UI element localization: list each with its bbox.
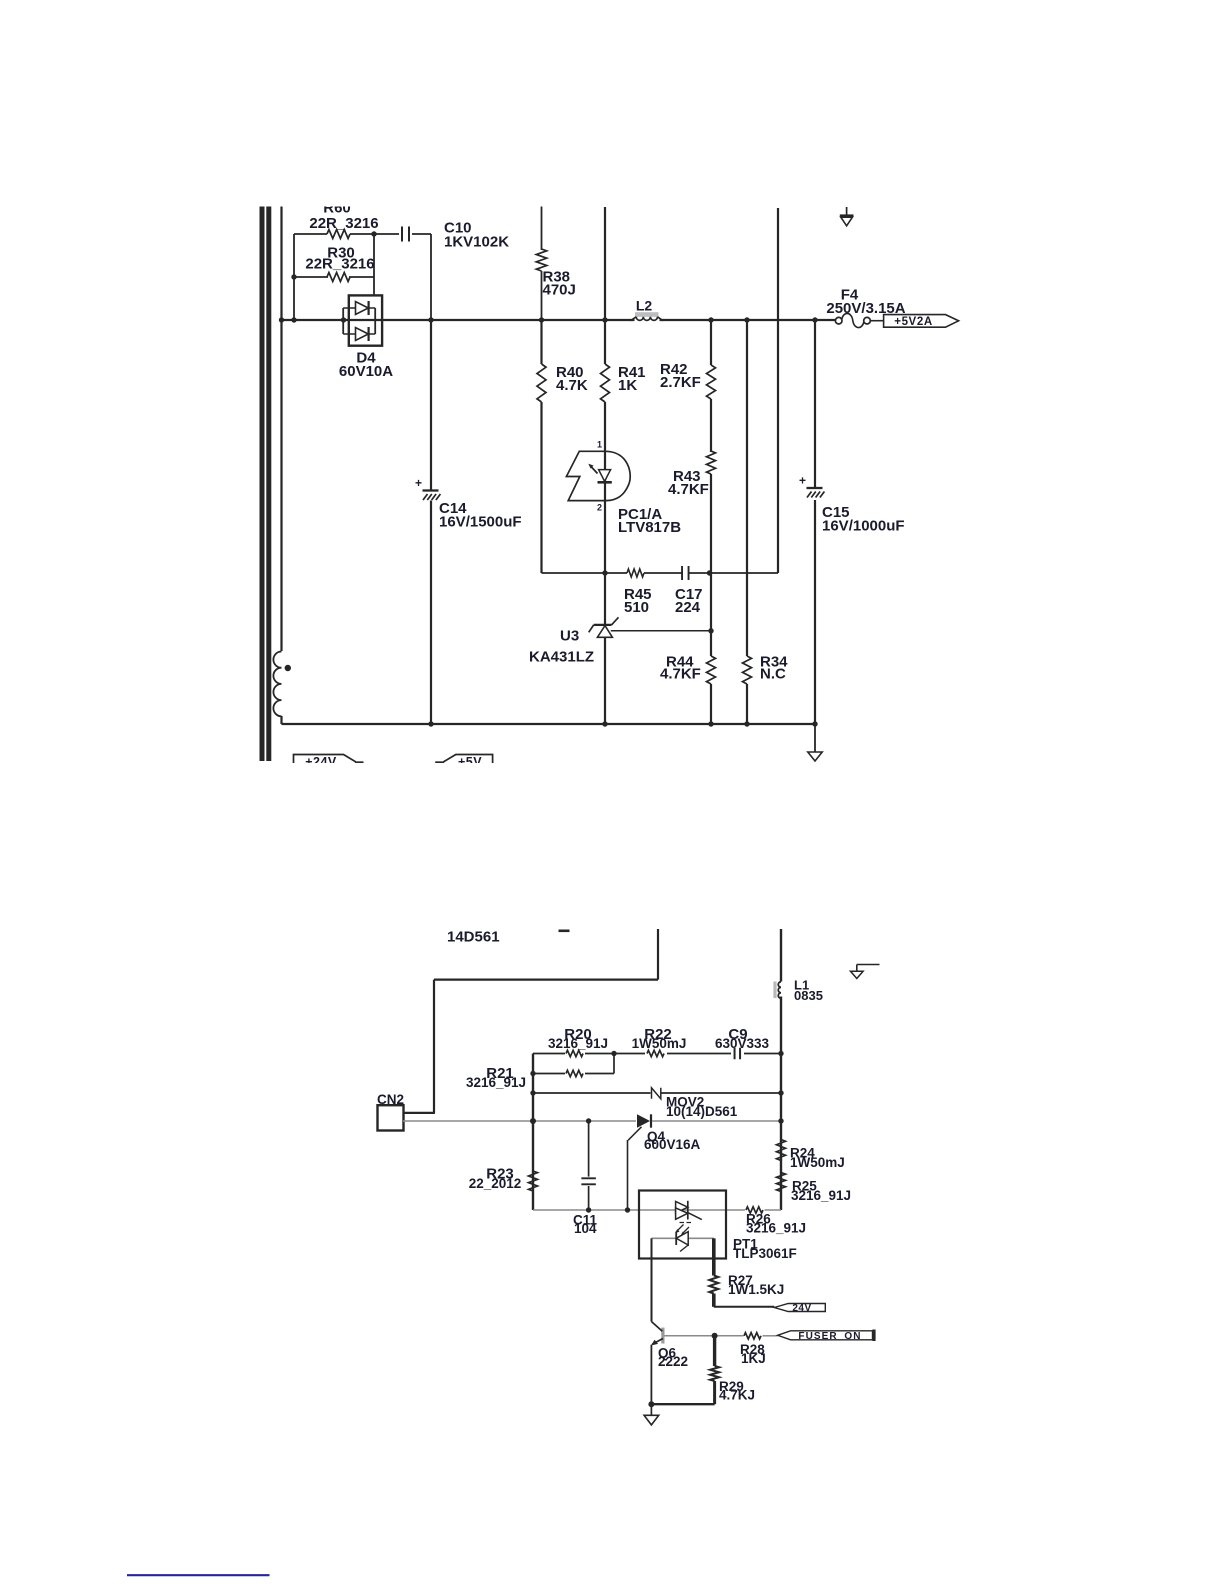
svg-text:630V333: 630V333 (715, 1036, 770, 1051)
svg-text:470J: 470J (543, 282, 576, 299)
svg-text:4.7K: 4.7K (556, 377, 588, 394)
svg-text:4.7KJ: 4.7KJ (719, 1388, 755, 1403)
svg-text:U3: U3 (560, 627, 579, 644)
svg-text:1W50mJ: 1W50mJ (632, 1036, 687, 1051)
svg-text:FUSER_ON: FUSER_ON (798, 1331, 861, 1342)
svg-text:R60: R60 (323, 199, 351, 216)
svg-text:CN2: CN2 (377, 1092, 404, 1107)
svg-text:60V10A: 60V10A (339, 363, 393, 380)
svg-text:L2: L2 (636, 298, 653, 314)
svg-text:1W50mJ: 1W50mJ (790, 1155, 845, 1170)
svg-text:510: 510 (624, 599, 649, 616)
svg-text:1W1.5KJ: 1W1.5KJ (728, 1282, 784, 1297)
svg-text:0835: 0835 (794, 988, 823, 1003)
svg-text:1K: 1K (618, 377, 637, 394)
svg-text:250V/3.15A: 250V/3.15A (826, 300, 905, 317)
svg-text:3216_91J: 3216_91J (466, 1075, 526, 1090)
svg-text:4.7KF: 4.7KF (660, 665, 701, 682)
svg-text:+24V: +24V (305, 755, 337, 769)
svg-text:3216_91J: 3216_91J (746, 1221, 806, 1236)
svg-text:LTV817B: LTV817B (618, 519, 681, 536)
svg-text:2: 2 (597, 503, 602, 513)
svg-text:KA431LZ: KA431LZ (529, 648, 594, 665)
svg-text:16V/1500uF: 16V/1500uF (439, 514, 522, 531)
svg-text:2222: 2222 (658, 1354, 688, 1369)
svg-text:+5V: +5V (458, 755, 482, 769)
svg-text:1KJ: 1KJ (741, 1351, 766, 1366)
svg-text:24V: 24V (792, 1303, 811, 1314)
svg-text:1KV102K: 1KV102K (444, 233, 509, 250)
svg-text:22R_3216: 22R_3216 (309, 215, 378, 232)
svg-text:104: 104 (574, 1221, 597, 1236)
svg-text:22R_3216: 22R_3216 (305, 255, 374, 272)
svg-text:16V/1000uF: 16V/1000uF (822, 517, 905, 534)
svg-text:3216_91J: 3216_91J (548, 1036, 608, 1051)
svg-text:224: 224 (675, 599, 701, 616)
svg-text:4.7KF: 4.7KF (668, 481, 709, 498)
svg-text:14D561: 14D561 (447, 928, 500, 945)
svg-text:+5V2A: +5V2A (894, 316, 932, 328)
svg-text:2.7KF: 2.7KF (660, 374, 701, 391)
svg-text:+: + (415, 476, 422, 490)
svg-text:10(14)D561: 10(14)D561 (666, 1104, 738, 1119)
svg-text:TLP3061F: TLP3061F (733, 1246, 797, 1261)
svg-text:3216_91J: 3216_91J (791, 1188, 851, 1203)
svg-text:600V16A: 600V16A (644, 1137, 701, 1152)
svg-text:N.C: N.C (760, 665, 786, 682)
svg-text:1: 1 (597, 440, 602, 450)
svg-text:+: + (799, 474, 806, 488)
svg-text:22_2012: 22_2012 (469, 1176, 522, 1191)
